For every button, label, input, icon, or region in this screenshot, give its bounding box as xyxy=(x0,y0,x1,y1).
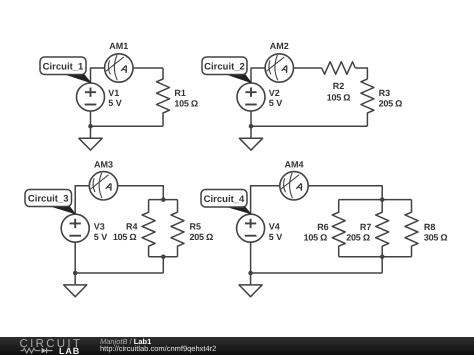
voltage source V3 xyxy=(61,214,89,242)
wire AM4 right to parallel top xyxy=(308,186,382,200)
wire bottom rail circuit 1 xyxy=(91,125,164,127)
ammeter AM3 xyxy=(89,172,117,200)
ammeter AM2 xyxy=(265,54,293,82)
svg-text:R5: R5 xyxy=(190,222,202,232)
ground xyxy=(239,285,262,297)
svg-text:R6: R6 xyxy=(317,222,329,232)
junction dot xyxy=(73,271,78,276)
junction dot xyxy=(248,271,253,276)
svg-text:Circuit_1: Circuit_1 xyxy=(43,61,84,72)
svg-text:205 Ω: 205 Ω xyxy=(379,99,403,109)
wire AM3 right to parallel top xyxy=(118,186,164,200)
junction dot xyxy=(88,124,93,129)
ammeter AM1 xyxy=(105,54,133,82)
resistor R8 xyxy=(405,200,418,257)
svg-text:AM3: AM3 xyxy=(94,160,113,170)
svg-text:R4: R4 xyxy=(126,222,138,232)
wire to ground 3 xyxy=(74,273,76,285)
wire V3 top to AM3 left xyxy=(75,186,89,214)
junction dot xyxy=(161,197,166,202)
svg-text:AM2: AM2 xyxy=(270,41,289,51)
wire V4 bottom to rail xyxy=(250,242,252,273)
resistor R5 xyxy=(171,200,184,257)
logo diode symbol xyxy=(42,348,47,353)
node label Circuit_1 xyxy=(40,57,91,83)
node label Circuit_2 xyxy=(202,57,251,83)
svg-text:Circuit_2: Circuit_2 xyxy=(204,61,245,72)
voltage source V4 xyxy=(237,214,265,242)
resistor R4 xyxy=(142,200,155,257)
svg-text:V4: V4 xyxy=(269,222,280,232)
wire bottom rail circuit 3 xyxy=(75,272,163,274)
svg-text:LAB: LAB xyxy=(59,346,80,355)
wire parallel bottom to rail xyxy=(162,257,164,273)
svg-text:http://circuitlab.com/cnmf9qeh: http://circuitlab.com/cnmf9qehxt4r2 xyxy=(100,344,216,353)
svg-text:Circuit_3: Circuit_3 xyxy=(28,194,69,205)
wire V2 bottom to rail xyxy=(250,111,252,126)
wire bottom rail circuit 2 xyxy=(251,125,367,127)
svg-text:V2: V2 xyxy=(269,88,280,98)
wire to ground 1 xyxy=(90,126,92,138)
junction dot xyxy=(380,197,385,202)
wire V3 bottom to rail xyxy=(74,242,76,273)
ground xyxy=(64,285,87,297)
logo schematic squiggle xyxy=(21,348,41,353)
svg-text:205 Ω: 205 Ω xyxy=(190,232,214,242)
wire bottom bar R6-R8 xyxy=(339,256,412,258)
ground xyxy=(239,138,262,150)
svg-text:R1: R1 xyxy=(174,88,186,98)
svg-text:105 Ω: 105 Ω xyxy=(327,93,351,103)
node label Circuit_4 xyxy=(201,190,250,214)
resistor R3 xyxy=(361,79,374,126)
svg-text:5 V: 5 V xyxy=(108,98,122,108)
svg-text:105 Ω: 105 Ω xyxy=(304,232,328,242)
ammeter AM4 xyxy=(280,172,308,200)
resistor R2 xyxy=(322,62,356,74)
svg-text:V1: V1 xyxy=(108,88,119,98)
wire AM1 right to R1 top xyxy=(133,67,163,69)
wire top bar R4-R5 xyxy=(149,199,178,201)
resistor R1 xyxy=(157,68,170,126)
svg-text:R8: R8 xyxy=(424,222,436,232)
wire top bar R6-R8 xyxy=(339,199,412,201)
svg-text:5 V: 5 V xyxy=(269,98,283,108)
wire V4 top to AM4 left xyxy=(251,186,280,214)
wire R2 right to R3 top xyxy=(355,68,367,79)
svg-text:305 Ω: 305 Ω xyxy=(424,232,448,242)
wire V2 top to AM2 left xyxy=(251,68,265,83)
voltage source V1 xyxy=(77,83,105,111)
svg-text:Circuit_4: Circuit_4 xyxy=(204,194,245,205)
svg-text:AM1: AM1 xyxy=(109,41,128,51)
svg-text:R3: R3 xyxy=(379,88,391,98)
voltage source V2 xyxy=(237,83,265,111)
node label Circuit_3 xyxy=(25,190,75,214)
svg-text:R7: R7 xyxy=(360,222,372,232)
svg-text:105 Ω: 105 Ω xyxy=(113,232,137,242)
svg-text:R2: R2 xyxy=(333,81,345,91)
wire AM2 right to R2 left xyxy=(294,67,322,69)
ground xyxy=(79,138,102,150)
wire bottom bar R4-R5 xyxy=(149,256,178,258)
svg-text:AM4: AM4 xyxy=(284,160,303,170)
junction dot xyxy=(249,124,254,129)
svg-text:5 V: 5 V xyxy=(269,232,283,242)
wire to ground 2 xyxy=(250,126,252,138)
svg-text:205 Ω: 205 Ω xyxy=(346,232,370,242)
wire V1 top to AM1 left xyxy=(91,68,105,83)
resistor R7 xyxy=(376,200,389,257)
wire bottom rail circuit 4 xyxy=(251,272,383,274)
resistor R6 xyxy=(332,200,345,257)
svg-text:105 Ω: 105 Ω xyxy=(174,98,198,108)
wire parallel bottom to rail 4 xyxy=(381,257,383,273)
footer background bar xyxy=(0,337,474,355)
wire V1 bottom to rail xyxy=(90,111,92,126)
svg-text:V3: V3 xyxy=(94,222,105,232)
junction dot xyxy=(161,254,166,259)
junction dot xyxy=(380,254,385,259)
wire to ground 4 xyxy=(250,273,252,285)
svg-text:5 V: 5 V xyxy=(94,232,108,242)
